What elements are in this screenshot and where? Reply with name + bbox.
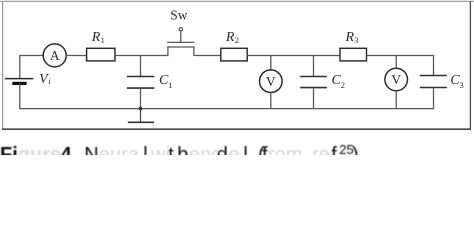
resistor R2: [221, 30, 247, 61]
frame (decorative): [0, 0, 474, 2]
svg-text:re: re: [312, 144, 330, 155]
node: ground junction dot: [139, 107, 143, 111]
svg-text:V: V: [391, 72, 401, 87]
wire: R2 to R3 with V and C2 taps: [247, 55, 340, 57]
wire: R3 to top-right corner: [367, 55, 435, 57]
capacitor C3: [420, 55, 464, 109]
svg-text:d: d: [217, 144, 228, 155]
wire: voltmeter V1 bottom stub: [270, 93, 272, 109]
svg-text:l: l: [143, 144, 147, 155]
voltmeter V1: [260, 70, 283, 93]
svg-text:l: l: [243, 144, 247, 155]
svg-text:R: R: [225, 30, 235, 45]
resistor R1: [87, 30, 115, 61]
caption: Figure 4: [0, 142, 359, 166]
svg-text:R: R: [345, 30, 355, 45]
ground: [128, 109, 154, 123]
svg-text:V: V: [266, 74, 276, 89]
svg-text:4.: 4.: [61, 144, 78, 155]
svg-text:): ): [352, 144, 359, 155]
svg-text:i: i: [48, 76, 51, 86]
svg-text:f: f: [331, 144, 337, 155]
svg-text:Fi: Fi: [0, 144, 18, 155]
svg-text:t: t: [168, 144, 174, 155]
svg-text:gure: gure: [18, 144, 61, 155]
wire: voltmeter V1 top stub: [270, 56, 272, 71]
svg-text:1: 1: [101, 35, 105, 45]
svg-text:N: N: [84, 144, 98, 155]
resistor R3: [340, 30, 367, 61]
svg-text:2: 2: [235, 35, 239, 45]
wire: top rail battery to ammeter: [19, 55, 43, 57]
svg-text:b: b: [177, 144, 188, 155]
switch Sw: [167, 8, 194, 56]
svg-text:1: 1: [168, 80, 172, 90]
wire: voltmeter V2 bottom stub: [395, 91, 397, 109]
svg-text:3: 3: [460, 80, 464, 90]
svg-text:e: e: [229, 144, 240, 155]
ammeter A: [43, 44, 66, 67]
svg-text:Sw: Sw: [170, 8, 188, 23]
wire: ammeter to R1: [66, 55, 87, 57]
svg-text:eura: eura: [99, 144, 140, 155]
wire: R1 to switch, with C1 tap: [115, 55, 169, 57]
svg-text:2: 2: [341, 80, 345, 90]
wire: left rail top (battery to top rail): [19, 56, 21, 79]
bottom rail wire: [19, 108, 434, 110]
wire: voltmeter V2 top stub: [395, 56, 397, 69]
wire: switch to R2: [194, 55, 221, 57]
wire: left rail bottom (battery to bottom rail): [19, 83, 21, 108]
svg-text:rom: rom: [268, 144, 302, 155]
svg-text:3: 3: [354, 35, 358, 45]
capacitor C2: [300, 56, 345, 109]
svg-text:R: R: [91, 30, 101, 45]
svg-text:A: A: [50, 48, 60, 63]
capacitor C1: [127, 56, 173, 109]
svg-text:wi: wi: [150, 144, 170, 155]
battery V_i: [5, 72, 52, 87]
voltmeter V2: [385, 68, 408, 91]
